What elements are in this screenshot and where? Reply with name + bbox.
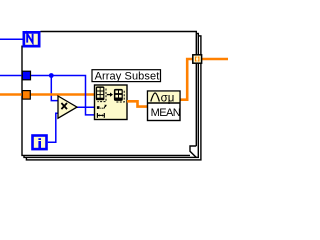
wire blue from iteration terminal to multiply bottom input bbox=[48, 113, 59, 142]
tunnel blue on left border bbox=[22, 71, 30, 80]
Array Subset: arrow between arrays bbox=[107, 93, 113, 97]
wire blue horizontal through tunnel then down to length input bbox=[0, 76, 95, 115]
Array Subset: index glyph bbox=[97, 105, 107, 109]
wire orange Mean output up to tunnel bbox=[180, 59, 193, 100]
for-loop frame C (back stacked frame) bbox=[26, 36, 201, 160]
tunnel orange on left border bbox=[22, 91, 30, 100]
junction dot bbox=[49, 73, 54, 78]
Array Subset: small array glyph back layer (dashed) bbox=[116, 91, 124, 102]
for-loop frame A (front frame with folded corner) bbox=[22, 32, 197, 158]
for-loop frame B (middle stacked frame) bbox=[24, 34, 198, 158]
iteration terminal i bbox=[31, 134, 48, 150]
Array Subset: big array glyph back layer (dashed) bbox=[98, 89, 107, 102]
Array Subset: small array glyph bbox=[114, 89, 123, 101]
wire orange from tunnel to right edge bbox=[202, 58, 229, 61]
wire blue to count terminal bbox=[0, 38, 23, 40]
wire orange Array Subset output to Mean input bbox=[127, 101, 148, 106]
Array Subset: big array glyph bbox=[96, 86, 105, 100]
count terminal N bbox=[23, 31, 41, 48]
indexing tunnel on right border bbox=[193, 55, 202, 63]
multiply function bbox=[58, 96, 77, 118]
svg-text:σμ: σμ bbox=[161, 92, 175, 104]
svg-text:Array Subset: Array Subset bbox=[95, 70, 160, 82]
wire orange from tunnel to Array Subset array input bbox=[0, 93, 95, 96]
Mean VI node bbox=[148, 91, 181, 121]
wire blue from junction down to multiply top input bbox=[51, 76, 58, 101]
svg-text:MEAN: MEAN bbox=[151, 107, 181, 119]
Array Subset label bbox=[92, 70, 161, 83]
wire blue multiply output to index input bbox=[75, 106, 95, 108]
Array Subset: length glyph bbox=[97, 113, 104, 118]
Array Subset node icon bbox=[95, 85, 128, 120]
